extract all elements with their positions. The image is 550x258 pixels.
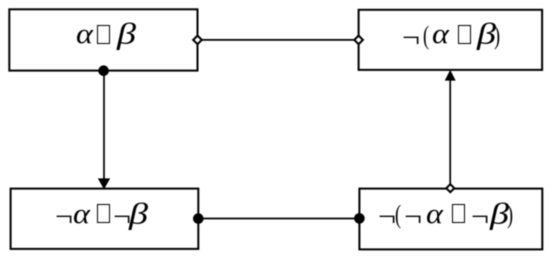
node: filled circle left of bottom-right box: [354, 213, 365, 224]
label top-right: tofu operator: [458, 25, 471, 44]
label top-left: alpha: [76, 21, 93, 49]
label bottom-right: tofu operator: [452, 204, 465, 223]
box: not-alpha-box top-right: [359, 10, 542, 70]
node: open diamond right of top-left box: [193, 36, 202, 45]
label bottom-right: not: [404, 204, 422, 232]
arrowhead down into bottom-left box: [98, 178, 110, 189]
label top-right: not: [402, 25, 420, 53]
node: filled circle bottom of top-left box: [98, 65, 109, 76]
wire: bottom horizontal connector: [198, 218, 359, 220]
label bottom-left: beta: [129, 200, 148, 230]
label bottom-right: not: [471, 204, 489, 232]
box: not-neg-alpha-box bottom-right: [359, 189, 542, 250]
wire: left vertical connector: [103, 71, 105, 180]
node: open diamond left of top-right box: [354, 36, 363, 45]
box: neg-alpha-box bottom-left: [11, 189, 199, 249]
label top-right: alpha: [432, 21, 449, 49]
label top-right: close paren: [494, 22, 500, 50]
label bottom-left: tofu operator: [97, 204, 110, 223]
wire: right vertical connector: [449, 79, 451, 188]
label bottom-right: alpha: [426, 201, 443, 229]
label bottom-left: not: [113, 204, 131, 232]
label bottom-left: alpha: [73, 201, 90, 229]
label bottom-right: open paren: [395, 201, 401, 229]
node: open diamond top of bottom-right box: [446, 184, 454, 192]
label bottom-right: not: [378, 204, 396, 232]
label top-left: tofu operator: [97, 25, 110, 44]
label bottom-left: not: [55, 204, 73, 232]
label bottom-right: beta: [490, 200, 509, 230]
wire: top horizontal connector: [198, 39, 359, 41]
label top-right: beta: [477, 21, 496, 51]
label top-right: open paren: [423, 22, 429, 50]
box: alpha-box top-left: [9, 9, 197, 70]
label top-left: beta: [117, 21, 136, 51]
arrowhead up into top-right box: [445, 70, 456, 81]
node: filled circle right of bottom-left box: [193, 213, 204, 224]
label bottom-right: close paren: [507, 201, 513, 229]
